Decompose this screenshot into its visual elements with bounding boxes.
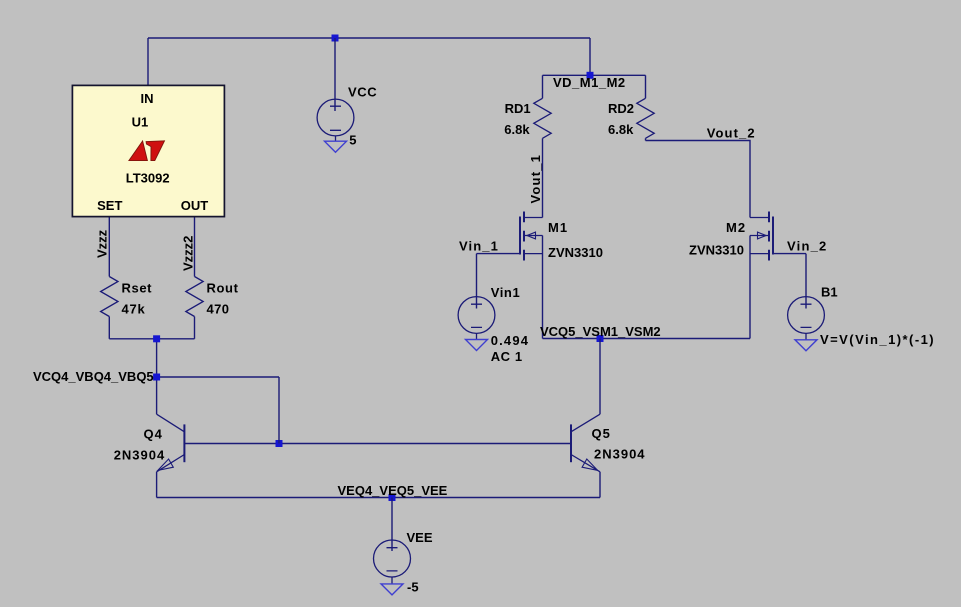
svg-text:47k: 47k [122, 302, 146, 317]
svg-text:Vin_2: Vin_2 [787, 239, 827, 254]
wire base bus Q4-Q5 [184, 443, 571, 445]
svg-text:Vin_1: Vin_1 [459, 239, 499, 254]
junction VEE [389, 494, 396, 501]
voltage source VCC [317, 99, 354, 136]
resistor Rset [101, 277, 118, 317]
svg-text:Vout_1: Vout_1 [528, 154, 543, 204]
ground VEE [381, 584, 403, 595]
svg-text:M2: M2 [726, 220, 746, 235]
resistor Rout [186, 277, 203, 317]
svg-text:AC 1: AC 1 [491, 349, 523, 364]
svg-text:RD2: RD2 [608, 101, 634, 116]
svg-text:VCQ5_VSM1_VSM2: VCQ5_VSM1_VSM2 [540, 324, 661, 339]
svg-text:6.8k: 6.8k [608, 122, 634, 137]
wire VCC lead [334, 38, 336, 111]
junction VD_M1_M2 [587, 72, 594, 79]
svg-text:VD_M1_M2: VD_M1_M2 [553, 75, 626, 90]
mosfet M2 [772, 217, 774, 255]
svg-text:M1: M1 [548, 220, 568, 235]
wire SET lead [108, 216, 110, 277]
svg-text:6.8k: 6.8k [504, 122, 530, 137]
mosfet M1 [519, 217, 521, 255]
svg-text:Vzzz2: Vzzz2 [181, 236, 196, 271]
svg-text:SET: SET [97, 198, 122, 213]
LT logo [129, 141, 148, 161]
resistor RD1 [542, 75, 544, 98]
svg-text:OUT: OUT [181, 198, 209, 213]
svg-text:VCC: VCC [348, 85, 377, 100]
svg-text:2N3904: 2N3904 [594, 447, 646, 462]
svg-text:Vzzz: Vzzz [95, 229, 110, 258]
junction resistor bus [153, 335, 160, 342]
wire top rail [148, 37, 590, 39]
svg-text:Rout: Rout [207, 281, 239, 296]
wire VCQ4 right drop [278, 377, 280, 444]
transistor Q5 [599, 339, 601, 415]
bv source B1 [788, 297, 825, 334]
IC U1 LT3092 body [72, 85, 224, 216]
wire OUT lead [194, 216, 196, 277]
transistor Q4 [156, 377, 158, 414]
junction VCQ4 [153, 374, 160, 381]
ground B1 [795, 340, 817, 351]
svg-text:RD1: RD1 [505, 101, 531, 116]
svg-text:5: 5 [349, 133, 356, 148]
wire Vout_2 [646, 141, 751, 218]
ground Vin1 [466, 340, 488, 351]
wire M2 gate lead [773, 253, 806, 255]
junction base bus [276, 440, 283, 447]
svg-text:B1: B1 [821, 285, 838, 300]
wire VCQ5_VSM1_VSM2 [543, 338, 751, 340]
svg-text:LT3092: LT3092 [126, 171, 170, 186]
svg-text:Q4: Q4 [144, 427, 163, 442]
wire VD_M1_M2 horizontal [543, 74, 646, 76]
svg-text:Rset: Rset [122, 281, 153, 296]
wire M2 source rail [749, 236, 751, 339]
svg-text:IN: IN [141, 91, 154, 106]
wire IN drop [147, 38, 149, 85]
svg-text:0.494: 0.494 [491, 333, 530, 348]
wire VEE lead [391, 498, 393, 552]
wire VD drop [589, 38, 591, 75]
svg-text:VEE: VEE [407, 530, 433, 545]
voltage source VEE [374, 540, 411, 577]
junction VCQ5 [597, 335, 604, 342]
svg-text:VEQ4_VEQ5_VEE: VEQ4_VEQ5_VEE [338, 483, 448, 498]
svg-text:Vin1: Vin1 [491, 285, 521, 300]
wire M1 gate lead [477, 253, 521, 255]
svg-text:-5: -5 [407, 580, 419, 595]
wire VCQ4 horizontal [157, 376, 279, 378]
svg-text:Vout_2: Vout_2 [707, 126, 756, 141]
svg-text:2N3904: 2N3904 [114, 448, 166, 463]
junction top rail VCC [332, 35, 339, 42]
wire resistor bottom bus [109, 338, 194, 340]
svg-text:VCQ4_VBQ4_VBQ5: VCQ4_VBQ4_VBQ5 [33, 369, 154, 384]
svg-text:ZVN3310: ZVN3310 [689, 243, 744, 258]
wire VEQ4_VEQ5_VEE [157, 497, 600, 499]
svg-text:Q5: Q5 [592, 426, 611, 441]
wire B1 drop [805, 254, 807, 309]
wire VCQ4 vertical [156, 339, 158, 377]
svg-text:ZVN3310: ZVN3310 [548, 245, 603, 260]
resistor RD2 [645, 75, 647, 98]
svg-text:470: 470 [207, 302, 230, 317]
wire Vin_1 drop [476, 254, 478, 309]
ground VCC [325, 141, 347, 152]
svg-text:V=V(Vin_1)*(-1): V=V(Vin_1)*(-1) [820, 332, 935, 347]
voltage source Vin1 [458, 297, 495, 334]
svg-text:U1: U1 [132, 115, 149, 130]
wire M1 source rail [542, 236, 544, 339]
